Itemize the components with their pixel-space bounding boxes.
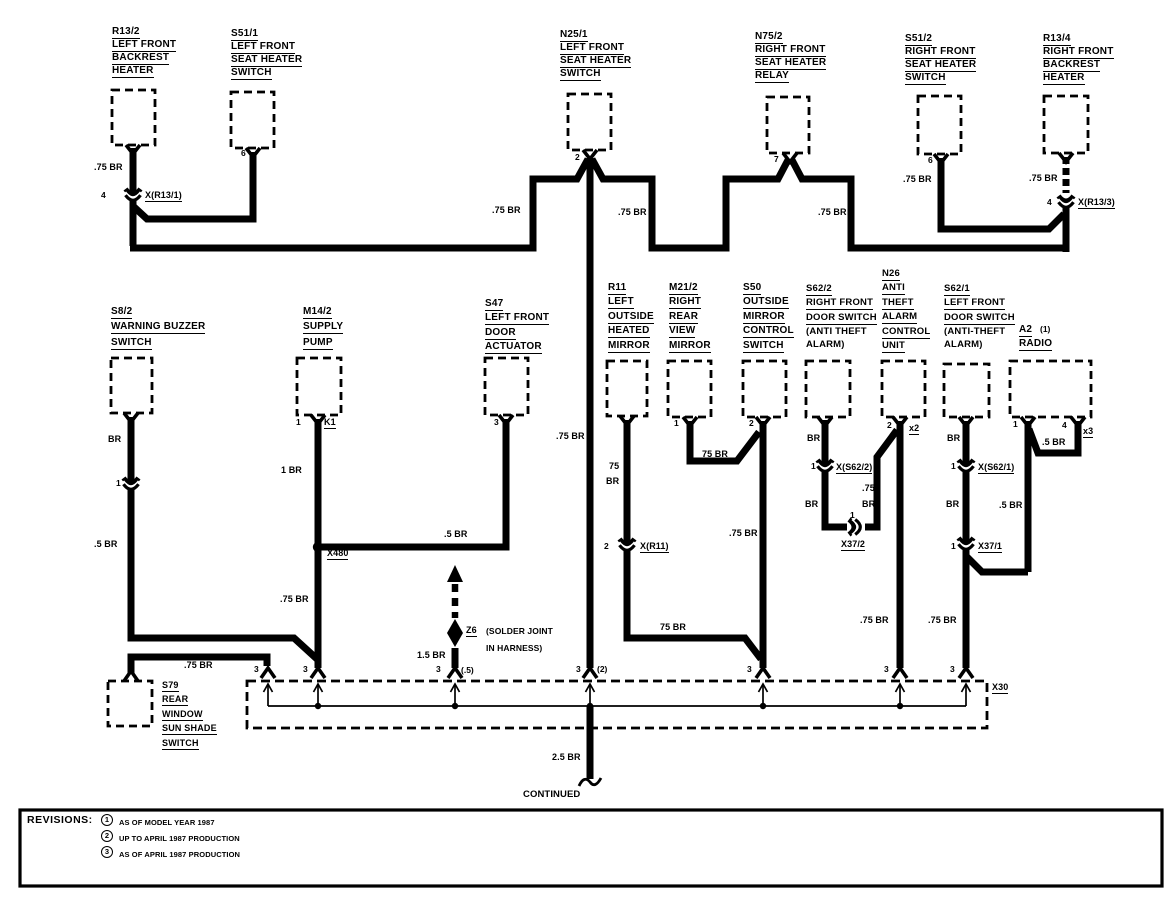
- wire top ground bus with risers to N25/1 and N75/2: [130, 159, 1069, 248]
- wire A2 radio pin 1 down and pin 4 jumper: [1028, 421, 1078, 572]
- arrow above Z6: [447, 565, 463, 582]
- component N75/2 box: [767, 97, 809, 153]
- wire M14/2 through X480 to bus: [315, 419, 322, 668]
- node X480: [313, 542, 323, 552]
- wire R13/4 dashed upper section: [1063, 157, 1070, 193]
- component R13/2 box: [112, 90, 155, 145]
- wire label BR (S62/2 lower): [805, 500, 818, 509]
- wire label 75 BR (R11): [609, 462, 619, 471]
- label S47: [485, 299, 549, 357]
- continuation curl: [579, 778, 601, 786]
- wire label BR (S62/1 lower): [946, 500, 959, 509]
- pin 2 N25/1: [575, 153, 580, 162]
- wire label .75 BR (N75/2 right): [818, 208, 847, 217]
- label S8/2: [111, 307, 205, 353]
- label S50: [743, 283, 794, 355]
- pin 6 S51/1: [241, 149, 246, 158]
- box pin flares: [126, 145, 140, 154]
- label Z6 solder joint: [466, 626, 477, 637]
- pin 1 X37/1: [951, 542, 956, 551]
- pin 1 X(S62/2): [811, 462, 816, 471]
- wire label 2.5 BR: [552, 753, 581, 762]
- junction dots on bus line: [315, 703, 903, 709]
- pin 6 S51/2: [928, 156, 933, 165]
- wire label .75 BR (right of N25/1): [618, 208, 647, 217]
- wire R13/2 to bus: [130, 148, 137, 246]
- pin 1 S8/2 connector: [116, 479, 121, 488]
- component R13/4 box: [1044, 96, 1088, 153]
- solder joint Z6 diamond: [447, 619, 463, 647]
- wire S62/1 to bus with branch to radio: [966, 421, 1028, 668]
- component S79 box: [108, 681, 152, 726]
- pin 1 A2: [1013, 420, 1018, 429]
- bus pin 3 labels: [254, 665, 259, 674]
- component N26 box: [882, 361, 925, 417]
- wire Z6 dashed upper: [452, 584, 459, 618]
- pin 4 X(R13/3): [1047, 198, 1052, 207]
- label N75/2: [755, 32, 826, 84]
- label S79: [162, 680, 217, 752]
- wire label .75 BR (M14/2): [280, 595, 309, 604]
- connector X(R11): [619, 539, 635, 550]
- wire label BR (S8/2): [108, 435, 121, 444]
- wire label .75 BR (S50): [729, 529, 758, 538]
- pin 3 S47: [494, 418, 499, 427]
- wire continued below bus: [587, 706, 594, 779]
- wire S79 to bus: [131, 657, 267, 674]
- footnote (.5) at Z6 entry: [461, 666, 474, 675]
- label M14/2: [303, 307, 343, 353]
- wire label .75 BR (S79): [184, 661, 213, 670]
- connector X(S62/1): [958, 460, 974, 471]
- wire label 1 BR: [281, 466, 302, 475]
- connector X37/1: [958, 538, 974, 549]
- label M21/2: [669, 283, 711, 355]
- pin 2 X(R11): [604, 542, 609, 551]
- wire label .5 BR (S8/2): [94, 540, 118, 549]
- wire S8/2 to bus: [131, 417, 317, 659]
- wire label 75 BR (R11 bottom): [660, 623, 686, 632]
- pin 1 M14/2 and K1: [296, 418, 301, 427]
- S79 pin flare (wire above box): [124, 671, 138, 681]
- component M14/2 box: [297, 358, 341, 415]
- wire R11 to bus: [627, 420, 761, 659]
- wire label .75 BR (S62/1 bottom): [928, 616, 957, 625]
- wire label 75 BR (M21/2): [702, 450, 728, 459]
- bus entry flares: [261, 668, 275, 678]
- wire label .75 BR (left riser): [492, 206, 521, 215]
- wire R13/4 lower section to bus: [1063, 208, 1070, 252]
- wire label .5 BR (S47): [444, 530, 468, 539]
- label S51/1: [231, 29, 302, 81]
- ground bus X30 box: [247, 681, 987, 728]
- component S51/2 box: [918, 96, 961, 154]
- component R11 box: [607, 361, 647, 416]
- connector X(S62/2): [817, 460, 833, 471]
- wire label .5 BR (A2 jumper): [1042, 438, 1066, 447]
- wire label BR (S62/2): [807, 434, 820, 443]
- component A2 radio box: [1010, 361, 1091, 417]
- wire S50 to bus: [760, 421, 767, 668]
- label N25/1: [560, 30, 631, 82]
- label N26: [882, 269, 930, 355]
- pin 7 N75/2: [774, 155, 779, 164]
- label R13/4: [1043, 34, 1114, 86]
- pin 2 N26 and x2: [887, 421, 892, 430]
- ground bus inner line: [268, 705, 966, 707]
- component S8/2 box: [111, 358, 152, 413]
- wire label BR (S62/1): [947, 434, 960, 443]
- label R13/2: [112, 27, 176, 79]
- component S62/2 box: [806, 361, 850, 417]
- pin 2 S50: [749, 419, 754, 428]
- pin 1 X37/2: [850, 511, 855, 520]
- component S51/1 box: [231, 92, 274, 148]
- pin 1 M21/2: [674, 419, 679, 428]
- revisions note box: [20, 810, 1162, 886]
- pin 1 X(S62/1): [951, 462, 956, 471]
- label R11: [608, 283, 654, 355]
- label S51/2: [905, 34, 976, 86]
- component S62/1 box: [944, 364, 989, 417]
- wire S47 to X480: [322, 419, 506, 547]
- revisions text: [27, 816, 93, 825]
- pin 4 X(R13/1): [101, 191, 106, 200]
- wire Z6 to bus: [452, 648, 459, 668]
- wire main .75 BR vertical from N25/1 pin 2: [587, 158, 594, 668]
- wire label .75 BR (S51/2): [903, 175, 932, 184]
- connector on S8/2 wire: [123, 478, 139, 489]
- wire label 1.5 BR (Z6): [417, 651, 446, 660]
- wire S51/2 joining R13/4 wire: [941, 158, 1064, 229]
- label A2 radio: [1019, 325, 1052, 354]
- label A2 footnote (1): [1040, 325, 1050, 334]
- component S50 box: [743, 361, 786, 417]
- wire S62/2 to X37/2 to N26 pin 2: [825, 420, 897, 527]
- component S47 box: [485, 358, 528, 415]
- wire label .75 BR (N26): [860, 616, 889, 625]
- wire M21/2 to S50 pin 2: [690, 421, 759, 461]
- connector X37/2: [849, 519, 860, 535]
- component N25/1 box: [568, 94, 611, 150]
- wire label .75 BR (X37/2 riser): [862, 484, 875, 493]
- pin 4 A2 and x3: [1062, 421, 1067, 430]
- label CONTINUED: [523, 790, 580, 799]
- footnote (2) at main entry: [597, 665, 607, 674]
- wire S51/1 joining R13/2 wire: [134, 152, 253, 219]
- wire label .75 BR (main): [556, 432, 585, 441]
- label S62/1: [944, 284, 1015, 352]
- wire label .5 BR (A2 down): [999, 501, 1023, 510]
- wire label .75 BR (R13/2): [94, 163, 123, 172]
- ground arrows inside bus: [264, 684, 273, 706]
- label S62/2: [806, 284, 877, 352]
- label X30: [992, 683, 1008, 694]
- wire N26 to bus: [897, 421, 904, 668]
- node label X480: [327, 549, 348, 560]
- connector X(R13/1): [125, 189, 141, 200]
- connector X(R13/3): [1058, 196, 1074, 207]
- component M21/2 box: [668, 361, 711, 417]
- wire label .75 BR (R13/4): [1029, 174, 1058, 183]
